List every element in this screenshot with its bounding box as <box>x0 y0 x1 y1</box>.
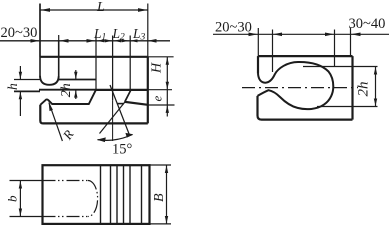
svg-text:L2: L2 <box>112 26 126 43</box>
svg-text:30~40: 30~40 <box>349 16 386 32</box>
svg-text:2h: 2h <box>356 82 372 97</box>
svg-text:20~30: 20~30 <box>1 25 38 41</box>
svg-text:h: h <box>5 83 20 90</box>
svg-text:L3: L3 <box>132 26 146 43</box>
svg-text:H: H <box>149 62 164 74</box>
svg-text:L: L <box>96 0 105 15</box>
svg-text:B: B <box>152 193 167 202</box>
svg-text:e: e <box>150 96 165 102</box>
svg-text:L1: L1 <box>93 26 106 43</box>
svg-text:20~30: 20~30 <box>215 20 252 36</box>
svg-text:15°: 15° <box>112 142 133 158</box>
svg-text:2h: 2h <box>59 83 74 97</box>
svg-text:b: b <box>5 195 20 202</box>
